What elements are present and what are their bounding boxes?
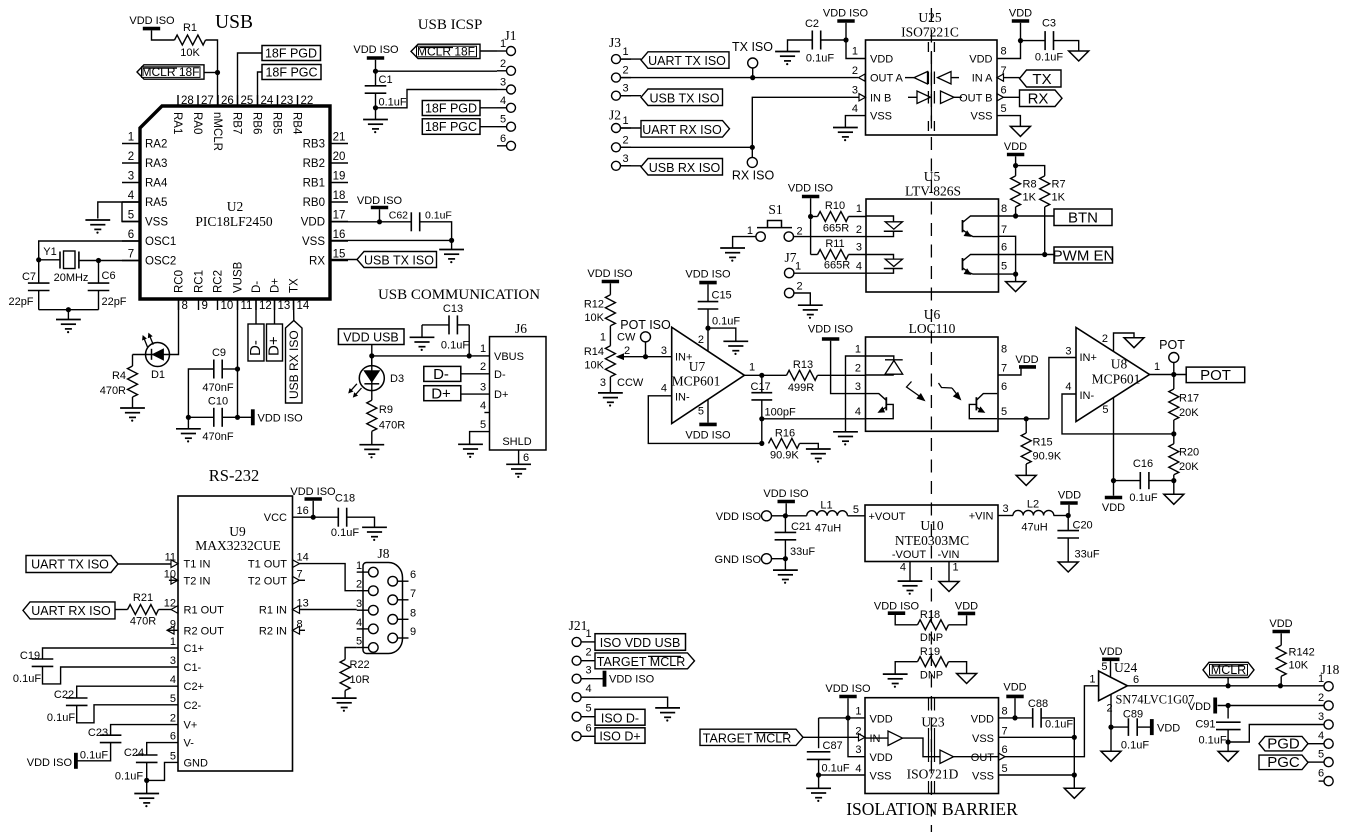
capacitor C89 0.1uF [1111,709,1150,752]
svg-text:16: 16 [297,505,309,517]
svg-text:1: 1 [747,225,753,237]
pin 23 RB5 (U2 top) [270,95,293,134]
svg-text:VDD: VDD [971,713,994,725]
svg-text:C23: C23 [88,727,108,739]
svg-text:C1-: C1- [184,662,202,674]
svg-text:C2+: C2+ [184,681,205,693]
svg-text:4: 4 [500,95,506,107]
U23 pin5 wire [999,774,1075,776]
ground triangle (C91) [1218,742,1238,761]
svg-text:VSS: VSS [970,111,992,123]
svg-text:3: 3 [1003,503,1009,515]
title ISOLATION BARRIER [846,799,1018,819]
U6 light arrow right [939,383,961,400]
pin 5 VSS (U2 left) [122,210,168,229]
connector J18 [1321,662,1340,677]
svg-text:C62: C62 [389,210,408,222]
svg-text:R1: R1 [183,22,197,34]
pin 10 RC2 (U2 bottom) [213,270,234,312]
net flag TARGET MCLR (U23) [700,729,865,745]
J18 pin 1 [1318,673,1333,691]
svg-text:1: 1 [1318,673,1324,685]
svg-text:665R: 665R [824,260,850,272]
svg-text:10K: 10K [1289,660,1309,672]
ground (R16) [806,449,831,463]
net flag UART TX ISO (J3) [621,52,730,69]
svg-text:20K: 20K [1179,407,1199,419]
power flag VDD_ISO (VCC) [290,486,336,517]
capacitor C3 0.1uF [1021,18,1079,64]
capacitor C9 470nF [188,347,237,417]
svg-text:R16: R16 [775,428,795,440]
svg-text:VCC: VCC [264,512,287,524]
test point RX ISO [732,147,775,182]
pin 6 OSC1 (U2 left) [122,229,176,248]
svg-text:IN-: IN- [1080,390,1095,402]
IC U25 ISO7221C body [866,10,998,135]
wire J8 pin5 to R22 [345,648,357,660]
ground triangle (R19) [957,674,977,684]
svg-text:VDD ISO: VDD ISO [825,683,871,695]
J3 pin 2 [612,65,632,83]
svg-text:499R: 499R [788,382,814,394]
svg-text:33uF: 33uF [790,546,815,558]
pin 1 RA2 (U2 left) [122,132,167,151]
svg-text:VDD ISO: VDD ISO [685,430,731,442]
LED D3 [346,356,404,400]
svg-text:C19: C19 [20,650,40,662]
ground (J7 pin2) [798,305,823,319]
net flag PGD [1259,735,1324,752]
svg-text:VDD ISO: VDD ISO [129,15,175,27]
net label POT [1186,367,1245,384]
svg-text:-VOUT: -VOUT [892,549,927,561]
ground (J21 pin4) [655,708,680,722]
svg-text:GND ISO: GND ISO [715,554,762,566]
svg-text:2: 2 [622,65,628,77]
wire J2 pin2 to IN B [621,94,866,150]
svg-text:VSS: VSS [145,217,168,229]
svg-text:LTV-826S: LTV-826S [905,184,961,199]
J2 pin 3 [612,153,632,171]
U24 pin5 to VDD [1099,646,1122,678]
svg-text:6: 6 [410,569,416,581]
svg-text:1: 1 [480,343,486,355]
svg-text:3: 3 [586,665,592,677]
ground triangle (R20/C16) [1164,494,1184,504]
svg-text:UART TX ISO: UART TX ISO [648,54,726,68]
U9 pin 14 wire to J8 pin2 [293,560,357,591]
J21 pin 2 [572,647,595,666]
svg-text:ISO D+: ISO D+ [599,730,640,744]
pin 2 RA3 (U2 left) [122,151,167,170]
svg-text:USB COMMUNICATION: USB COMMUNICATION [378,287,540,303]
svg-text:9: 9 [202,300,208,312]
svg-text:RB6: RB6 [250,112,262,134]
svg-text:21: 21 [333,132,346,144]
U6 internal transistor left [866,394,894,419]
power flag VDD_ISO (C21) [763,488,809,516]
J21 pin 6 [572,722,595,741]
ground (C18) [362,527,387,541]
svg-text:0.1uF: 0.1uF [822,763,850,775]
ground triangle (U23 VSS) [1064,788,1084,798]
svg-text:0.1uF: 0.1uF [331,527,359,539]
U9 pin 8 stub [293,626,306,634]
svg-text:VDD: VDD [1102,502,1125,514]
svg-text:18F PGD: 18F PGD [265,47,317,61]
U23 internal buffers [865,699,999,794]
svg-text:7: 7 [128,249,134,261]
svg-text:RB2: RB2 [303,158,325,170]
svg-text:VDD ISO: VDD ISO [808,324,854,336]
resistor R15 90.9K [1021,419,1062,476]
net label 18F PGD (top) [238,46,321,107]
ground (R9) [359,445,384,459]
capacitor C15 0.1uF [698,284,741,351]
U5 internal transistor A [963,216,999,237]
svg-text:1: 1 [170,636,176,648]
IC U9 MAX3232CUE body [178,496,293,771]
power flag VDD (U6 pin7) [998,354,1039,375]
svg-text:4: 4 [170,674,176,686]
svg-text:470R: 470R [130,616,156,628]
ground (C10) [176,429,201,443]
svg-text:L2: L2 [1027,499,1039,511]
svg-text:33uF: 33uF [1075,549,1100,561]
U23 OUT wire to U24 [999,686,1099,761]
U9 pin 1 C1+ (left) [170,636,204,655]
title USB ICSP [418,17,483,33]
resistor R1 [175,22,206,59]
svg-text:3: 3 [170,655,176,667]
svg-text:U25: U25 [918,10,941,25]
svg-text:27: 27 [201,95,214,107]
svg-text:0.1uF: 0.1uF [47,712,75,724]
ground (R19) [883,674,908,688]
svg-text:C20: C20 [1073,520,1093,532]
IC U6 LOC110 body [866,307,999,431]
pin 12 D- (U2 bottom) [251,281,272,312]
pin 14 TX (U2 bottom) [289,278,310,312]
svg-text:28: 28 [181,95,194,107]
svg-text:10: 10 [221,300,234,312]
svg-text:R10: R10 [825,200,845,212]
pin 17 VDD (U2 right) [301,210,348,229]
U9 pin labels right [248,552,309,638]
capacitor C91 0.1uF [1195,706,1240,747]
U9 pin 11 input arrow [171,560,178,568]
svg-text:22: 22 [301,95,314,107]
J18 pin 3 [1318,711,1333,729]
svg-text:1: 1 [795,261,801,273]
ground (pin16) [439,250,464,264]
svg-text:U23: U23 [921,715,944,730]
net flag USB TX ISO (J3) [621,89,723,106]
U24 pin2 wire [1108,694,1113,729]
svg-text:24: 24 [261,95,274,107]
U7 pin5 to VDD_ISO [685,400,731,442]
pin 22 RB4 (U2 top) [290,95,313,135]
svg-text:1: 1 [749,362,755,374]
svg-text:1K: 1K [1023,192,1037,204]
svg-text:665R: 665R [823,223,849,235]
svg-text:8: 8 [1001,203,1007,215]
svg-text:USB TX ISO: USB TX ISO [364,254,434,268]
svg-text:GND: GND [184,757,209,769]
svg-text:R2 IN: R2 IN [259,625,287,637]
net flag USB RX ISO (J2) [621,159,723,176]
wire OSC2 [79,258,140,283]
svg-text:6: 6 [170,731,176,743]
svg-text:4: 4 [128,190,135,202]
op-amp U7 MCP601 [661,327,755,423]
svg-text:VSS: VSS [302,236,325,248]
U23 pin numbers [855,706,1007,776]
ground triangle (U5 pin5) [1006,282,1026,292]
svg-text:SHLD: SHLD [502,436,531,448]
U23 pin1 pin3 wires [819,718,865,757]
svg-text:C91: C91 [1195,719,1215,731]
J21 pin 4 [572,683,595,702]
svg-text:USB RX ISO: USB RX ISO [287,330,301,399]
svg-text:4: 4 [586,683,592,695]
svg-text:VDD ISO: VDD ISO [763,488,809,500]
svg-text:D-: D- [247,340,264,356]
svg-text:C15: C15 [712,290,732,302]
inductor L1 47uH [783,500,848,535]
svg-text:1: 1 [852,46,858,58]
ground triangle (U25 pin5) [1010,126,1030,136]
U25 internal buffers [905,42,962,131]
svg-text:10K: 10K [584,312,604,324]
net label 18F PGC (top) [258,65,322,107]
svg-text:TX ISO: TX ISO [732,40,773,54]
U7 feedback wire pin4 [648,396,764,446]
svg-text:2: 2 [586,647,592,659]
svg-text:2: 2 [170,713,176,725]
net flag MCLR 18F (J1) [411,44,497,58]
svg-text:C1: C1 [379,74,393,86]
svg-text:C7: C7 [22,271,36,283]
svg-text:2: 2 [128,151,134,163]
svg-text:23: 23 [281,95,294,107]
U6 pin numbers [855,344,1007,419]
svg-text:0.1uF: 0.1uF [1199,735,1227,747]
inductor L2 47uH [1013,499,1071,534]
svg-text:RC2: RC2 [213,270,225,293]
svg-text:VDD: VDD [1003,682,1026,694]
svg-text:5: 5 [170,693,176,705]
svg-text:R2 OUT: R2 OUT [184,625,225,637]
svg-text:L1: L1 [820,500,832,512]
ground (VSS pin5) [85,220,110,234]
svg-text:T1 IN: T1 IN [184,559,211,571]
svg-text:4: 4 [852,103,858,115]
svg-text:-VIN: -VIN [938,549,960,561]
ground triangle (C3) [1069,51,1089,61]
U9 pin 10 T2 IN (left) [164,568,211,587]
svg-text:5: 5 [1001,103,1007,115]
J7 pin 2 [785,281,811,305]
capacitor C62 0.1uF [389,210,452,241]
ground (C1) [363,120,388,134]
pin 19 RB1 (U2 right) [303,171,348,190]
ground triangle (U24 pin2) [1101,727,1121,761]
net flag UART RX ISO [23,602,128,619]
svg-text:VDD: VDD [301,217,325,229]
svg-text:ISO VDD USB: ISO VDD USB [600,636,681,650]
svg-text:R4: R4 [112,370,126,382]
svg-text:4: 4 [900,562,906,574]
svg-text:C89: C89 [1123,709,1143,721]
switch S1 [747,202,803,241]
capacitor C17 100pF [751,375,796,443]
ground (R14) [598,393,623,407]
U10 pin 5 / L1 [848,504,866,516]
net label D- (J6) [424,366,461,383]
svg-text:R11: R11 [825,238,844,250]
svg-text:USB TX ISO: USB TX ISO [650,92,720,106]
capacitor C1 0.1uF [365,74,407,119]
svg-text:ISO D-: ISO D- [601,711,639,725]
svg-text:VSS: VSS [870,111,892,123]
svg-text:5: 5 [480,419,486,431]
svg-text:J6: J6 [515,321,527,336]
svg-text:C88: C88 [1028,698,1048,710]
connector J8 body [363,546,403,654]
svg-text:C6: C6 [102,270,116,282]
resistor R8 1K [1011,176,1037,216]
svg-text:3: 3 [856,242,862,254]
ground triangle (C20) [1058,562,1078,572]
svg-text:CW: CW [617,332,636,344]
U9 pin 2 V+ (left) [170,713,197,732]
svg-text:6: 6 [1001,85,1007,97]
J1 pin 5 [497,114,516,132]
svg-text:OUT B: OUT B [959,92,992,104]
ground (C21/GND ISO) [773,570,798,584]
svg-text:2: 2 [1107,703,1113,715]
wire J3 pin2 to OUT A [621,74,866,81]
svg-text:MCLR: MCLR [1211,663,1246,677]
svg-text:26: 26 [221,95,234,107]
U8 feedback wire pin4 [1062,394,1176,437]
ground (J6 pin6) [506,464,531,478]
svg-text:1: 1 [356,560,362,572]
svg-text:4: 4 [661,383,667,395]
svg-text:IN: IN [870,733,881,745]
svg-text:D1: D1 [151,369,165,381]
svg-text:0.1uF: 0.1uF [1045,719,1073,731]
test point POT [1159,338,1185,375]
svg-text:VDD ISO: VDD ISO [258,412,304,424]
power flag VDD (C20) [1058,490,1081,516]
svg-text:POT ISO: POT ISO [620,318,671,332]
svg-text:UART TX ISO: UART TX ISO [31,558,109,572]
title RS-232 [209,466,259,485]
power tap VDD (C89) [1152,719,1180,735]
ground (C24/GND) [134,794,159,808]
svg-text:S1: S1 [768,202,782,217]
svg-text:90.9K: 90.9K [770,450,799,462]
net flag MCLR (U24) [1203,662,1254,686]
svg-text:T2 OUT: T2 OUT [248,575,287,587]
svg-text:0.1uF: 0.1uF [1121,740,1149,752]
J1 pin 6 [497,133,516,151]
svg-text:470nF: 470nF [202,382,233,394]
svg-text:C21: C21 [791,521,811,533]
svg-text:MCP601: MCP601 [672,374,721,389]
svg-text:RA5: RA5 [145,197,167,209]
svg-text:VSS: VSS [972,771,994,783]
J2 pin 1 [612,115,632,133]
svg-text:C17: C17 [751,381,771,393]
svg-text:0.1uF: 0.1uF [379,96,407,108]
capacitor C6 22pF [88,270,127,310]
net flag MCLR 18F [137,65,218,79]
svg-text:R22: R22 [350,659,370,671]
svg-text:20: 20 [333,151,346,163]
svg-text:20K: 20K [1179,461,1199,473]
wire U6 pin5 node [998,358,1076,422]
svg-text:R1 OUT: R1 OUT [184,605,225,617]
svg-text:TARGET MCLR: TARGET MCLR [703,731,791,745]
wire crystal caps to ground [39,307,99,319]
pin 8 RC0 (U2 bottom) [174,270,188,312]
power flag VDD_ISO (R1) [129,15,175,40]
svg-text:0.1uF: 0.1uF [115,771,143,783]
svg-text:ISO721D: ISO721D [907,767,959,782]
svg-text:RB3: RB3 [303,139,325,151]
svg-text:470R: 470R [379,420,405,432]
connector J2 [609,108,621,123]
svg-text:R8: R8 [1023,179,1037,191]
svg-text:5: 5 [698,406,704,418]
svg-text:R13: R13 [793,359,813,371]
svg-text:RB7: RB7 [230,112,242,134]
svg-text:1: 1 [500,38,506,50]
wire C17 to U6 pin4 [762,418,866,420]
svg-text:17: 17 [333,210,346,222]
svg-text:6: 6 [1002,744,1008,756]
J6 pin 2 [461,361,490,374]
svg-text:LOC110: LOC110 [909,321,956,336]
test point TX ISO [732,40,773,78]
U8 pin5 to VDD [1102,398,1125,515]
J18 pin 4 [1318,730,1333,748]
isolation barrier dashed line [930,8,932,832]
J18 pin 5 [1318,749,1333,767]
svg-text:6: 6 [1001,242,1007,254]
svg-text:C24: C24 [124,747,144,759]
svg-text:4: 4 [1318,730,1324,742]
pin 28 RA1 (U2 top) [171,95,194,134]
IC U10 NTE0303MC body [865,505,998,562]
svg-text:D-: D- [433,366,449,383]
U5 internal LED B [866,255,903,274]
svg-text:PGC: PGC [1267,754,1300,771]
svg-text:3: 3 [855,381,861,393]
svg-text:0.1uF: 0.1uF [80,750,108,762]
svg-text:OSC1: OSC1 [145,236,176,248]
svg-text:TX: TX [289,278,301,293]
svg-text:IN A: IN A [972,73,993,85]
svg-text:USB: USB [215,12,253,33]
svg-text:T1 OUT: T1 OUT [248,559,287,571]
svg-text:MCP601: MCP601 [1092,372,1141,387]
net label ISO VDD USB [595,634,686,651]
